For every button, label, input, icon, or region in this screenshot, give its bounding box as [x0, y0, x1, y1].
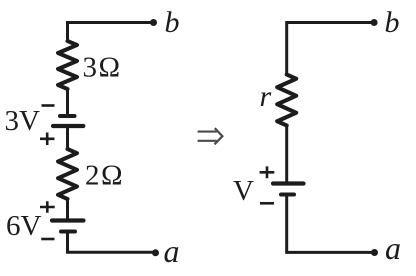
wire: resistor 2ohm to battery 6V [66, 199, 69, 221]
wire: resistor 3ohm to battery 3V [66, 89, 69, 116]
battery 3V short plate (negative, top) [60, 114, 75, 118]
double arrow head [215, 128, 223, 144]
svg-text:a: a [385, 230, 401, 266]
wire: top corner to node b [287, 23, 374, 76]
svg-text:V: V [233, 175, 254, 207]
node a (left) [152, 249, 159, 256]
svg-text:3V: 3V [5, 105, 41, 137]
wire: battery 6V to node a [68, 232, 156, 253]
battery V short plate (negative, bottom) [281, 193, 294, 197]
wire: resistor r to battery V [285, 126, 288, 184]
svg-text:3Ω: 3Ω [83, 52, 122, 84]
resistor 3ohm [58, 41, 77, 89]
battery 3V long plate (positive, bottom) [53, 124, 83, 128]
minus sign of 6V [41, 238, 54, 241]
resistor 2ohm [58, 149, 77, 199]
battery V long plate (positive, top) [273, 181, 304, 185]
svg-text:r: r [260, 80, 272, 113]
svg-text:a: a [164, 233, 180, 269]
minus sign of V [260, 202, 274, 205]
node a (right) [371, 249, 378, 256]
resistor r [277, 75, 296, 126]
plus sign of V [260, 166, 275, 178]
svg-text:b: b [385, 6, 400, 39]
svg-text:2Ω: 2Ω [85, 160, 124, 192]
node b (left) [150, 19, 157, 26]
plus sign of 6V [40, 201, 55, 213]
svg-text:b: b [165, 6, 180, 39]
svg-text:6V: 6V [6, 210, 42, 242]
wire: top-left corner to node b [68, 23, 154, 43]
node b (right) [371, 19, 378, 26]
double arrow bars [198, 132, 217, 141]
wire: battery 3V to resistor 2ohm [66, 126, 69, 150]
plus sign of 3V [40, 133, 55, 146]
battery 6V long plate (positive, top) [52, 218, 84, 222]
minus sign of 3V [42, 104, 55, 107]
battery 6V short plate (negative, bottom) [61, 230, 75, 234]
wire: battery V to node a [287, 195, 375, 253]
